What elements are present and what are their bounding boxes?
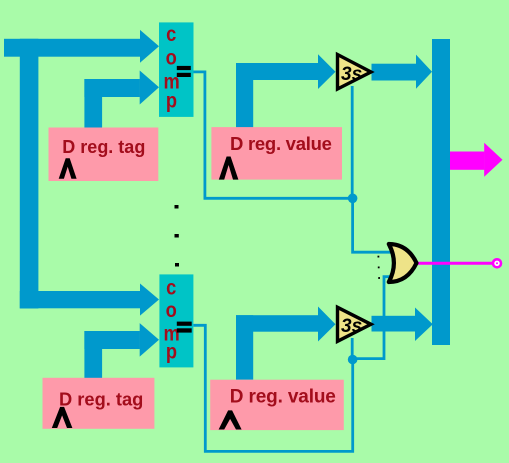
arrow A5: D reg. value (top) to 3s buffer B1 — [236, 63, 253, 128]
svg-text:D reg. tag: D reg. tag — [59, 389, 143, 410]
arrow A7: 3s buffer B1 output to CDB bus — [372, 64, 417, 81]
comparator U1 (comp, top) — [159, 22, 194, 117]
wire W7: OR gate output (magenta) — [416, 262, 492, 265]
svg-text:p: p — [166, 340, 177, 363]
node: output terminal circle — [492, 258, 503, 269]
register box R2: D reg. value (top) — [211, 127, 342, 180]
arrow A8: 3s buffer B2 output to CDB bus — [372, 316, 416, 332]
OR gate G1 — [389, 244, 417, 282]
bus wire: vertical branch of main bus — [20, 39, 39, 309]
wire W2: junction J1 up to 3s buffer B1 control input — [351, 86, 354, 198]
svg-text:o: o — [166, 46, 177, 69]
bus arrow A1 head into comp1 input 1 — [140, 30, 159, 63]
arrow A3: D reg. tag (top) to comp1 input 2 — [84, 79, 102, 128]
wire W5: junction J2 up to 3s buffer B2 control input — [351, 338, 354, 360]
label: "=" output of U2 — [177, 322, 192, 326]
ellipsis dots (more registers, left) — [175, 205, 179, 209]
svg-text:c: c — [166, 276, 176, 299]
valid marker: caret in R1 — [59, 158, 77, 179]
valid marker: caret in R2 — [219, 157, 239, 180]
wire W1: comp1 "=" output to junction J1 — [194, 72, 353, 198]
valid marker: caret in R4 — [219, 410, 242, 429]
junction J2 — [348, 355, 358, 365]
junction J1 — [348, 194, 358, 204]
wire W6: junction J2 to OR gate input 2 — [353, 277, 392, 359]
wire W3: junction J1 down to OR gate input 1 — [353, 198, 392, 252]
label: "=" output of U1 — [177, 66, 191, 70]
tri-state buffer B1 (3s, top) — [338, 55, 372, 90]
bus: CDB vertical bus bar (right) — [432, 39, 450, 345]
svg-text:3s: 3s — [341, 316, 362, 337]
svg-text:c: c — [166, 23, 176, 46]
register box R4: D reg. value (bottom) — [210, 380, 344, 430]
arrow A9: magenta CDB output arrow — [450, 152, 484, 170]
svg-text:3s: 3s — [341, 64, 362, 85]
comparator U2 (comp, bottom) — [159, 274, 193, 367]
bus arrow A2: elbow into comp2 input 1 — [20, 291, 140, 308]
svg-text:D reg. value: D reg. value — [230, 133, 332, 154]
ellipsis dots (more OR inputs) — [378, 256, 380, 258]
svg-text:D reg. value: D reg. value — [230, 386, 336, 407]
svg-text:o: o — [166, 299, 177, 322]
svg-text:p: p — [166, 89, 177, 112]
tri-state buffer B2 (3s, bottom) — [338, 307, 372, 341]
register box R1: D reg. tag (top) — [49, 128, 159, 182]
bus arrow A1: main tag-in bus, horizontal top bar — [4, 39, 140, 57]
arrow A4: D reg. tag (bottom) to comp2 input 2 — [84, 331, 102, 378]
register box R3: D reg. tag (bottom) — [43, 378, 155, 429]
valid marker: caret in R3 — [52, 407, 73, 428]
svg-text:D reg. tag: D reg. tag — [62, 137, 145, 157]
arrow A6: D reg. value (bottom) to 3s buffer B2 — [236, 315, 253, 380]
wire W4: comp2 "=" output down/around to junction J2 — [194, 325, 353, 451]
